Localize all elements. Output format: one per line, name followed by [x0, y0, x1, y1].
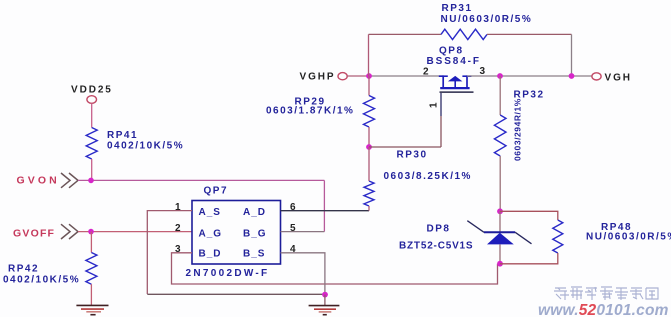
svg-text:QP7: QP7	[204, 186, 229, 197]
body arrow	[448, 76, 463, 82]
resistor RP30	[364, 147, 472, 211]
svg-text:A_D: A_D	[243, 207, 266, 218]
wire GVOFF row to QP7 pin 2	[78, 231, 192, 233]
node gate junction	[366, 144, 372, 150]
svg-text:0402/10K/5%: 0402/10K/5%	[3, 275, 80, 286]
resistor RP29	[266, 76, 375, 147]
wire top rail right	[487, 33, 572, 35]
svg-text:VGH: VGH	[605, 73, 632, 84]
wire main rail left	[347, 75, 368, 77]
svg-text:2: 2	[423, 67, 429, 78]
svg-text:BZT52-C5V1S: BZT52-C5V1S	[399, 241, 473, 252]
svg-text:BSS84-F: BSS84-F	[427, 56, 481, 67]
svg-text:A_S: A_S	[199, 207, 221, 218]
svg-text:0603/1.87K/1%: 0603/1.87K/1%	[266, 106, 354, 117]
svg-text:DP8: DP8	[427, 224, 451, 235]
port GVOFF	[13, 224, 78, 239]
wire VDD25 to RP41	[91, 103, 93, 127]
svg-text:QP8: QP8	[439, 46, 464, 57]
wire GVON row	[78, 179, 324, 181]
node ground junction	[322, 292, 328, 298]
wire top loop left vertical	[368, 34, 370, 76]
node rail-RP32 junction	[497, 73, 503, 79]
svg-text:0603/294R/1%: 0603/294R/1%	[513, 98, 523, 161]
svg-text:NU/0603/0R/5%: NU/0603/0R/5%	[441, 14, 533, 25]
port VGH	[592, 73, 632, 84]
channel bar	[440, 87, 469, 89]
svg-text:GVOFF: GVOFF	[13, 228, 55, 240]
node rail-RP29 junction	[366, 73, 372, 79]
svg-text:B_G: B_G	[243, 229, 267, 240]
transistor QP8	[427, 46, 481, 93]
resistor RP41	[86, 128, 184, 160]
svg-text:GVON: GVON	[17, 175, 60, 187]
node GVON junction	[88, 178, 94, 184]
wire QP7 pin 6 to RP30	[281, 210, 370, 212]
svg-text:1: 1	[429, 102, 440, 108]
watermark	[538, 287, 669, 317]
svg-text:2: 2	[175, 223, 181, 234]
power port VDD25	[71, 85, 113, 104]
resistor RP31	[441, 3, 533, 40]
svg-text:2N7002DW-F: 2N7002DW-F	[186, 268, 270, 279]
svg-text:NU/0603/0R/5%: NU/0603/0R/5%	[586, 232, 671, 243]
svg-text:RP31: RP31	[442, 3, 473, 14]
svg-text:VGHP: VGHP	[300, 72, 336, 83]
resistor RP48	[500, 211, 671, 263]
svg-text:RP42: RP42	[8, 264, 39, 275]
wire QP7 pin 3 loop	[172, 253, 498, 284]
wire GVOFF to RP42	[90, 232, 92, 253]
wire gate vertical	[440, 93, 442, 116]
node RP32-DP8 junction	[497, 208, 503, 214]
zener diode DP8	[399, 211, 532, 263]
resistor RP32	[494, 76, 544, 211]
node DP8 anode junction	[497, 261, 503, 267]
node GVOFF junction	[88, 229, 94, 235]
ground under RP42	[76, 305, 108, 314]
svg-text:0402/10K/5%: 0402/10K/5%	[107, 141, 184, 152]
wire top rail left	[369, 33, 442, 35]
wire QP7 pin 1	[147, 211, 192, 294]
wire top loop right vertical	[571, 34, 573, 76]
anode triangle	[487, 233, 514, 245]
wire rail right of QP8	[467, 75, 592, 77]
node rail-loop junction	[569, 73, 575, 79]
svg-text:B_S: B_S	[243, 249, 265, 260]
wire QP7 pin 5	[281, 231, 325, 233]
svg-text:RP30: RP30	[397, 150, 428, 161]
svg-text:RP41: RP41	[107, 130, 138, 141]
resistor RP42	[3, 253, 97, 286]
mosfet QP7	[186, 186, 281, 280]
svg-text:A_G: A_G	[199, 229, 223, 240]
ground center	[309, 295, 340, 315]
svg-text:www.520101.com: www.520101.com	[538, 302, 669, 317]
cathode bar with zener wings	[467, 221, 484, 233]
svg-text:B_D: B_D	[199, 249, 222, 260]
port GVON	[17, 173, 79, 188]
wire QP7 pin 4 to ground	[281, 253, 325, 294]
svg-text:VDD25: VDD25	[71, 85, 113, 96]
svg-text:0603/8.25K/1%: 0603/8.25K/1%	[384, 171, 472, 182]
source stub	[442, 75, 444, 87]
gate bar	[440, 91, 474, 93]
port VGHP	[300, 72, 348, 83]
wire RP41 to GVON node	[91, 159, 93, 180]
wire RP42 to ground	[90, 284, 92, 305]
wire ground row	[147, 293, 325, 295]
drain stub	[466, 75, 468, 87]
wire gate horizontal	[369, 146, 441, 148]
wire GVON vertical to pin5	[323, 180, 325, 231]
